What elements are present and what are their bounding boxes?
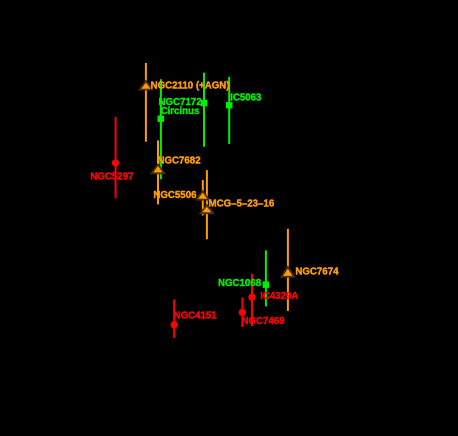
error bar Circinus (green) bbox=[160, 79, 162, 179]
svg-text:Circinus: Circinus bbox=[161, 106, 200, 117]
marker circle NGC4151 bbox=[171, 321, 178, 328]
marker circle IC4329A bbox=[248, 294, 255, 301]
marker triangle NGC5506 bbox=[196, 191, 209, 200]
error bar NGC4151 (red) bbox=[173, 299, 175, 338]
marker square Circinus bbox=[158, 116, 165, 122]
marker triangle NGC7674 bbox=[282, 267, 295, 277]
error bar NGC7172 (green) bbox=[203, 73, 205, 147]
error bar NGC5297 (red) bbox=[115, 117, 117, 198]
error bar IC4329A (red) bbox=[251, 274, 253, 326]
marker square NGC1068 bbox=[263, 282, 270, 288]
svg-text:NGC2110 (+AGN): NGC2110 (+AGN) bbox=[151, 81, 230, 92]
error bar NGC5506 (orange) bbox=[202, 180, 204, 216]
error bar NGC7469 (red) bbox=[241, 297, 243, 327]
error bar MCG-5-23-16 (orange) bbox=[206, 170, 208, 239]
svg-text:NGC5297: NGC5297 bbox=[90, 172, 133, 183]
svg-text:NGC5506: NGC5506 bbox=[153, 190, 197, 201]
svg-text:IC4329A: IC4329A bbox=[260, 291, 298, 302]
svg-text:IC5063: IC5063 bbox=[230, 93, 262, 104]
error bar NGC1068 (green) bbox=[265, 250, 267, 306]
error bar NGC7682 (orange) bbox=[157, 140, 159, 204]
svg-text:NGC1068: NGC1068 bbox=[218, 278, 262, 289]
marker triangle MCG-5-23-16 bbox=[200, 205, 213, 213]
svg-text:NGC7674: NGC7674 bbox=[295, 266, 339, 277]
svg-text:NGC4151: NGC4151 bbox=[174, 311, 218, 322]
error bar NGC2110 (orange) bbox=[145, 63, 147, 142]
marker circle NGC5297 bbox=[112, 159, 119, 166]
svg-text:NGC7682: NGC7682 bbox=[158, 155, 201, 166]
error bar IC5063 (green) bbox=[228, 77, 230, 144]
svg-text:MCG–5–23–16: MCG–5–23–16 bbox=[209, 198, 275, 209]
error bar NGC7674 (orange) bbox=[287, 229, 289, 311]
marker square IC5063 bbox=[226, 102, 233, 108]
marker circle NGC7469 bbox=[239, 309, 246, 316]
marker triangle NGC7682 bbox=[152, 165, 165, 174]
marker square NGC7172 bbox=[201, 100, 208, 106]
svg-text:NGC7469: NGC7469 bbox=[242, 316, 286, 327]
marker triangle NGC2110 bbox=[140, 81, 152, 90]
